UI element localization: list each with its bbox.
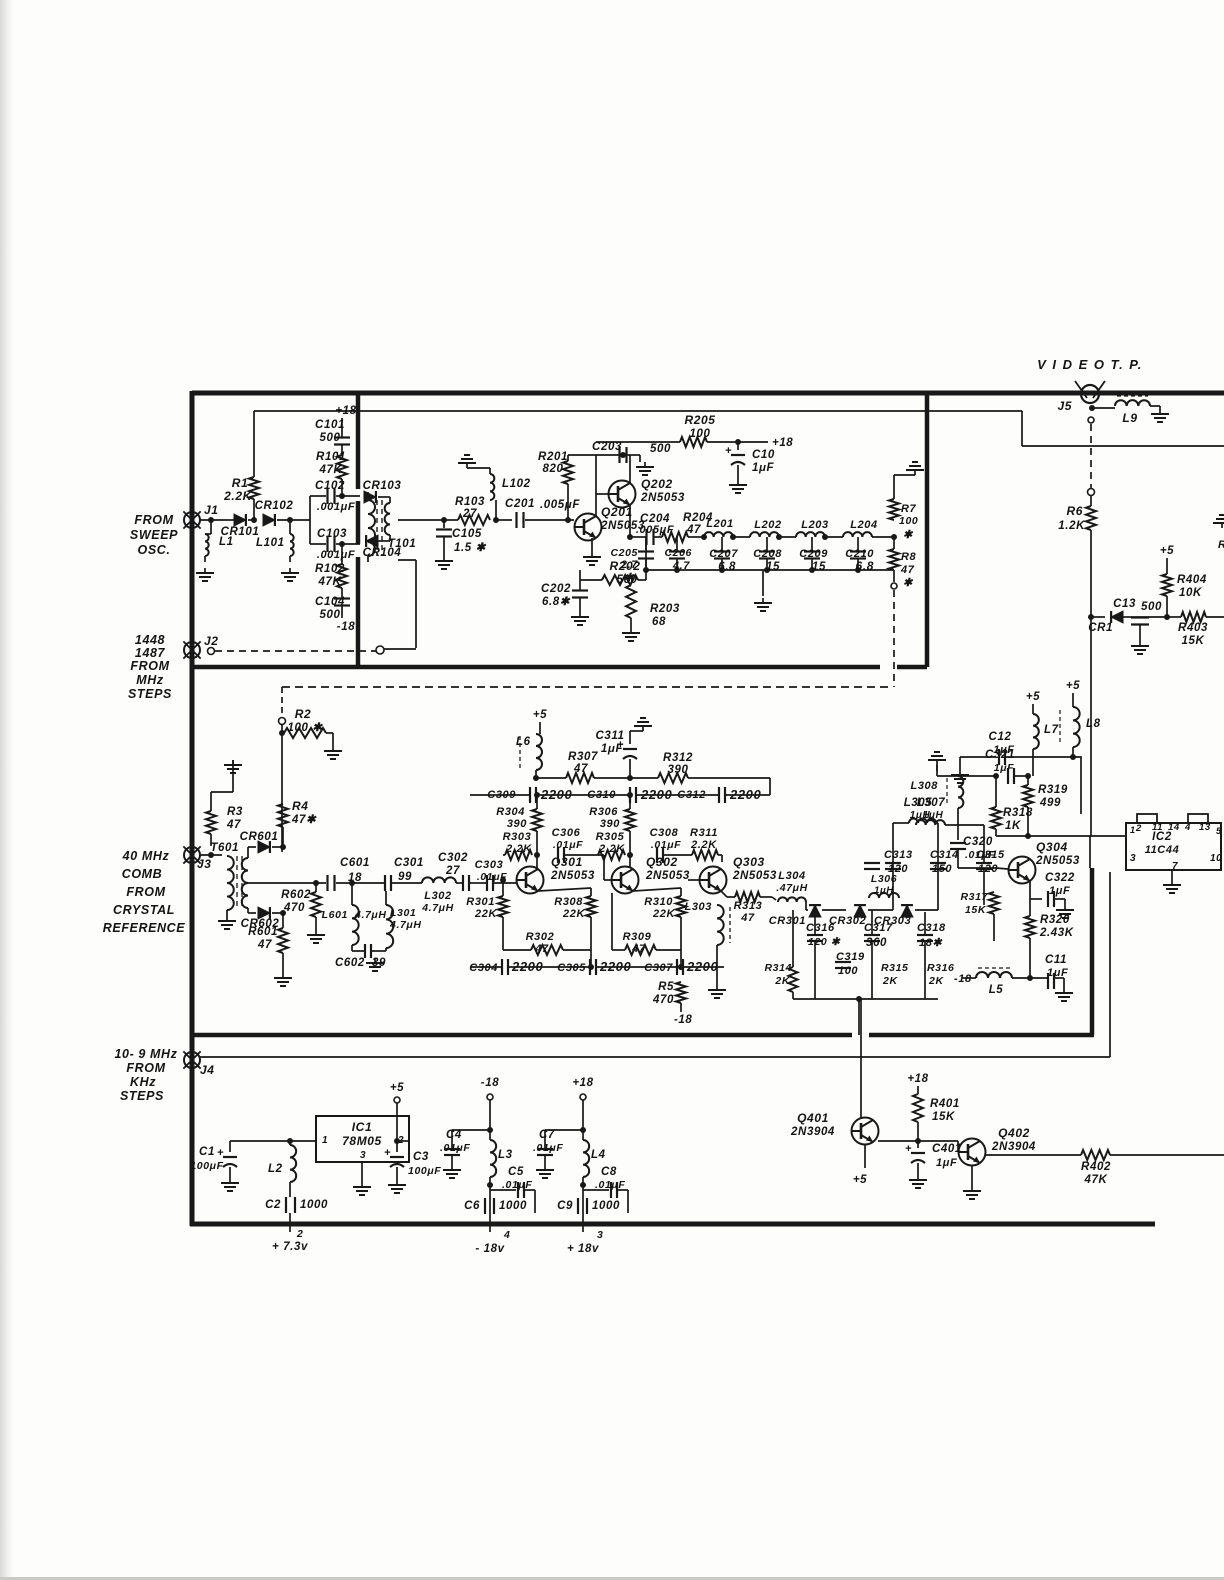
svg-text:47K: 47K <box>1084 1174 1108 1186</box>
svg-text:L101: L101 <box>256 537 285 549</box>
svg-text:C13: C13 <box>1113 598 1136 610</box>
svg-text:✱: ✱ <box>624 572 635 584</box>
svg-text:Q401: Q401 <box>797 1111 829 1125</box>
svg-text:1000: 1000 <box>300 1199 328 1211</box>
svg-text:Q202: Q202 <box>641 477 673 491</box>
svg-text:47: 47 <box>257 939 272 951</box>
svg-text:2.2K: 2.2K <box>690 839 717 851</box>
svg-text:R309: R309 <box>623 931 652 943</box>
svg-text:J3: J3 <box>197 857 212 871</box>
svg-text:C319: C319 <box>836 951 865 963</box>
svg-text:T601: T601 <box>210 842 239 854</box>
svg-text:+ 7.3v: + 7.3v <box>272 1241 308 1253</box>
svg-text:390: 390 <box>668 764 689 776</box>
svg-text:R403: R403 <box>1178 622 1208 634</box>
svg-text:2: 2 <box>1135 823 1142 834</box>
svg-text:C313: C313 <box>884 849 913 861</box>
svg-text:FROM: FROM <box>130 659 169 673</box>
svg-text:C301: C301 <box>394 857 424 869</box>
svg-text:L201: L201 <box>706 518 733 530</box>
svg-text:10: 10 <box>1210 853 1222 864</box>
svg-text:C206: C206 <box>664 547 692 559</box>
svg-text:4.7: 4.7 <box>672 560 690 572</box>
svg-text:R401: R401 <box>930 1098 960 1110</box>
svg-text:2.2K: 2.2K <box>505 843 532 855</box>
svg-text:15: 15 <box>812 561 826 573</box>
svg-text:10- 9 MHz: 10- 9 MHz <box>114 1047 177 1061</box>
svg-text:2K: 2K <box>928 975 944 987</box>
svg-text:15K: 15K <box>932 1111 955 1123</box>
svg-text:R4: R4 <box>292 799 309 813</box>
svg-text:CR103: CR103 <box>363 480 402 492</box>
svg-text:STEPS: STEPS <box>120 1089 164 1103</box>
svg-text:.005μF: .005μF <box>636 524 674 536</box>
svg-text:Q302: Q302 <box>646 855 678 869</box>
svg-text:1μF: 1μF <box>936 1157 957 1169</box>
svg-text:C201: C201 <box>505 498 535 510</box>
svg-text:Q304: Q304 <box>1036 840 1068 854</box>
svg-text:R8: R8 <box>901 551 917 563</box>
svg-text:C310: C310 <box>587 789 616 801</box>
svg-text:L2: L2 <box>268 1163 283 1175</box>
svg-text:L9: L9 <box>1122 411 1137 425</box>
svg-text:4: 4 <box>503 1229 510 1241</box>
svg-text:2N5053: 2N5053 <box>550 870 595 882</box>
svg-text:C318: C318 <box>917 922 946 934</box>
svg-text:5: 5 <box>1216 826 1222 836</box>
svg-text:C10: C10 <box>752 449 775 461</box>
svg-text:2.7: 2.7 <box>620 559 638 571</box>
svg-text:C105: C105 <box>452 528 482 540</box>
svg-text:100 ✱: 100 ✱ <box>287 722 323 734</box>
svg-text:R302: R302 <box>526 931 555 943</box>
svg-text:4.7μH: 4.7μH <box>389 919 422 931</box>
svg-text:L203: L203 <box>801 519 828 531</box>
svg-text:L301: L301 <box>390 907 416 919</box>
svg-text:R305: R305 <box>596 831 625 843</box>
svg-text:R5: R5 <box>658 981 674 993</box>
svg-text:100: 100 <box>899 515 918 527</box>
svg-text:J1: J1 <box>204 503 219 517</box>
svg-text:+18: +18 <box>772 437 793 449</box>
svg-text:1000: 1000 <box>499 1200 527 1212</box>
svg-text:100μF: 100μF <box>408 1165 441 1177</box>
svg-text:C303: C303 <box>475 859 504 871</box>
svg-text:6.8: 6.8 <box>856 559 874 573</box>
svg-text:COMB: COMB <box>122 867 163 881</box>
svg-text:REFERENCE: REFERENCE <box>103 921 186 935</box>
svg-text:47K: 47K <box>318 576 342 588</box>
svg-text:+5: +5 <box>1160 545 1174 557</box>
svg-text:R404: R404 <box>1177 574 1207 586</box>
svg-text:C4: C4 <box>446 1129 462 1141</box>
svg-text:R306: R306 <box>589 806 618 818</box>
svg-text:C305: C305 <box>557 962 586 974</box>
svg-text:✱: ✱ <box>903 577 914 589</box>
svg-text:+: + <box>725 445 732 457</box>
svg-text:R304: R304 <box>496 806 525 818</box>
svg-text:6.8✱: 6.8✱ <box>542 596 571 608</box>
svg-text:47: 47 <box>534 943 549 955</box>
svg-text:500: 500 <box>650 443 671 455</box>
svg-text:100μF: 100μF <box>190 1160 223 1172</box>
svg-text:R6: R6 <box>1066 504 1083 518</box>
svg-text:L303: L303 <box>685 901 712 913</box>
svg-text:15: 15 <box>766 561 780 573</box>
svg-text:+18: +18 <box>907 1073 928 1085</box>
svg-text:C6: C6 <box>464 1200 480 1212</box>
svg-text:18✱: 18✱ <box>919 937 943 949</box>
svg-text:2.43K: 2.43K <box>1039 927 1074 939</box>
svg-text:27: 27 <box>445 865 460 877</box>
svg-text:C314: C314 <box>930 849 959 861</box>
svg-text:.01μF: .01μF <box>533 1142 563 1154</box>
svg-text:R1: R1 <box>232 476 249 490</box>
svg-text:2N5053: 2N5053 <box>640 492 685 504</box>
svg-text:R102: R102 <box>315 563 345 575</box>
svg-text:L304: L304 <box>778 870 805 882</box>
svg-text:C317: C317 <box>864 922 893 934</box>
svg-text:78M05: 78M05 <box>342 1134 382 1148</box>
svg-text:L202: L202 <box>754 519 781 531</box>
svg-text:C8: C8 <box>601 1166 617 1178</box>
svg-text:L204: L204 <box>850 519 877 531</box>
svg-text:C308: C308 <box>650 827 679 839</box>
svg-text:C207: C207 <box>709 548 738 560</box>
svg-text:13: 13 <box>1199 822 1211 833</box>
svg-text:68: 68 <box>652 616 666 628</box>
svg-text:.47μH: .47μH <box>776 882 808 894</box>
svg-text:R2: R2 <box>295 707 312 721</box>
svg-text:6.8: 6.8 <box>718 561 736 573</box>
svg-text:1μF: 1μF <box>1049 885 1070 897</box>
svg-text:2N3904: 2N3904 <box>991 1141 1036 1153</box>
svg-text:120 ✱: 120 ✱ <box>808 936 841 948</box>
svg-text:22K: 22K <box>474 908 497 920</box>
svg-text:J4: J4 <box>200 1063 215 1077</box>
svg-text:2.2K: 2.2K <box>598 843 625 855</box>
svg-text:R317: R317 <box>960 891 988 903</box>
svg-text:15K: 15K <box>965 904 987 916</box>
svg-text:CR1: CR1 <box>1088 622 1113 634</box>
svg-text:C5: C5 <box>508 1166 524 1178</box>
svg-text:Q402: Q402 <box>998 1126 1030 1140</box>
svg-text:FROM: FROM <box>126 1061 165 1075</box>
svg-text:✱: ✱ <box>903 529 914 541</box>
svg-text:1: 1 <box>1130 825 1136 835</box>
svg-text:3: 3 <box>597 1229 603 1241</box>
svg-text:L102: L102 <box>502 478 531 490</box>
svg-text:.01μF: .01μF <box>502 1179 532 1191</box>
svg-text:CR301: CR301 <box>769 915 806 927</box>
svg-text:C2: C2 <box>265 1199 281 1211</box>
svg-text:R313: R313 <box>734 900 763 912</box>
svg-text:820: 820 <box>543 463 564 475</box>
svg-text:360: 360 <box>866 937 887 949</box>
svg-text:CRYSTAL: CRYSTAL <box>113 903 175 917</box>
svg-text:C101: C101 <box>315 419 345 431</box>
svg-text:+5: +5 <box>1066 680 1080 692</box>
svg-text:100: 100 <box>690 428 711 440</box>
svg-text:L8: L8 <box>1086 718 1101 730</box>
svg-text:-18: -18 <box>337 621 355 633</box>
svg-text:.01μF: .01μF <box>595 1179 625 1191</box>
svg-text:2N5053: 2N5053 <box>645 870 690 882</box>
svg-text:L3: L3 <box>498 1149 513 1161</box>
svg-text:+: + <box>617 739 624 751</box>
svg-text:4.7μH: 4.7μH <box>354 909 387 921</box>
svg-text:+: + <box>905 1143 912 1155</box>
svg-text:R311: R311 <box>690 827 718 839</box>
svg-text:470: 470 <box>652 994 674 1006</box>
svg-text:R310: R310 <box>644 896 673 908</box>
svg-text:V I D E O T. P.: V I D E O T. P. <box>1037 357 1143 372</box>
svg-text:7: 7 <box>1172 861 1178 872</box>
svg-text:C209: C209 <box>799 548 828 560</box>
svg-text:L5: L5 <box>989 984 1004 996</box>
svg-text:.001μF: .001μF <box>317 501 355 513</box>
svg-text:J5: J5 <box>1057 399 1072 413</box>
svg-text:R201: R201 <box>538 451 568 463</box>
svg-text:R307: R307 <box>568 751 598 763</box>
svg-text:L308: L308 <box>911 780 939 792</box>
svg-text:47✱: 47✱ <box>291 814 317 826</box>
svg-text:C1: C1 <box>199 1146 215 1158</box>
svg-text:47: 47 <box>573 763 588 775</box>
svg-text:.01μF: .01μF <box>553 839 583 851</box>
svg-text:C11: C11 <box>1045 954 1067 966</box>
svg-text:1μF: 1μF <box>752 462 775 474</box>
svg-text:3: 3 <box>360 1150 366 1161</box>
svg-text:-18: -18 <box>954 973 972 985</box>
svg-text:+: + <box>217 1147 224 1159</box>
svg-text:500: 500 <box>1141 601 1162 613</box>
svg-text:L307: L307 <box>917 797 946 809</box>
svg-text:-18: -18 <box>481 1077 499 1089</box>
svg-text:2N5053: 2N5053 <box>732 870 777 882</box>
svg-text:C307: C307 <box>644 962 673 974</box>
svg-text:.01μF: .01μF <box>440 1142 470 1154</box>
svg-text:R312: R312 <box>663 752 693 764</box>
svg-text:500: 500 <box>320 609 341 621</box>
svg-text:1000: 1000 <box>592 1200 620 1212</box>
svg-text:47: 47 <box>686 524 701 536</box>
svg-text:L601: L601 <box>322 909 348 921</box>
svg-text:C306: C306 <box>552 827 581 839</box>
svg-text:22K: 22K <box>562 908 585 920</box>
svg-text:FROM: FROM <box>134 513 173 527</box>
svg-text:.005μF: .005μF <box>540 499 580 511</box>
svg-text:C208: C208 <box>753 548 782 560</box>
svg-text:C102: C102 <box>315 480 345 492</box>
svg-text:47: 47 <box>226 819 241 831</box>
svg-text:C304: C304 <box>469 962 498 974</box>
svg-text:L7: L7 <box>1044 724 1059 736</box>
svg-text:390: 390 <box>600 818 620 830</box>
svg-text:C316: C316 <box>806 922 835 934</box>
svg-text:CR102: CR102 <box>255 500 294 512</box>
svg-text:C322: C322 <box>1045 872 1075 884</box>
svg-text:- 18v: - 18v <box>475 1243 504 1255</box>
svg-text:R601: R601 <box>248 926 278 938</box>
svg-text:1K: 1K <box>1005 820 1021 832</box>
svg-text:T101: T101 <box>388 538 417 550</box>
svg-text:R103: R103 <box>455 496 485 508</box>
svg-text:L306: L306 <box>871 873 897 885</box>
svg-text:+18: +18 <box>335 405 356 417</box>
svg-text:+: + <box>384 1147 391 1159</box>
svg-text:1.2K: 1.2K <box>1058 520 1085 532</box>
svg-text:+5: +5 <box>1026 691 1040 703</box>
svg-text:R602: R602 <box>281 889 311 901</box>
svg-text:2K: 2K <box>774 975 790 987</box>
svg-text:R320: R320 <box>1040 914 1070 926</box>
svg-text:15K: 15K <box>1182 635 1205 647</box>
svg-text:100: 100 <box>838 965 858 977</box>
svg-text:3: 3 <box>1130 853 1136 864</box>
svg-text:L6: L6 <box>516 736 531 748</box>
svg-text:R301: R301 <box>466 896 495 908</box>
svg-text:R316: R316 <box>927 962 955 974</box>
svg-text:99: 99 <box>398 871 412 883</box>
svg-text:+18: +18 <box>572 1077 593 1089</box>
svg-text:22K: 22K <box>652 908 675 920</box>
svg-text:1μH: 1μH <box>923 810 944 821</box>
svg-text:11: 11 <box>1152 822 1163 833</box>
svg-text:CR601: CR601 <box>240 831 279 843</box>
svg-text:1487: 1487 <box>135 646 166 660</box>
svg-text:C202: C202 <box>541 583 571 595</box>
svg-text:470: 470 <box>283 902 305 914</box>
svg-text:SWEEP: SWEEP <box>130 528 178 542</box>
svg-text:4: 4 <box>1184 822 1191 833</box>
svg-text:390: 390 <box>507 818 527 830</box>
svg-text:C205: C205 <box>610 547 638 559</box>
svg-text:R: R <box>1218 539 1224 551</box>
svg-text:+5: +5 <box>390 1082 404 1094</box>
svg-text:C103: C103 <box>317 528 347 540</box>
svg-text:+ 18v: + 18v <box>567 1243 599 1255</box>
svg-text:C12: C12 <box>989 731 1012 743</box>
svg-text:120: 120 <box>978 863 998 875</box>
svg-text:40 MHz: 40 MHz <box>122 849 170 863</box>
svg-text:C302: C302 <box>438 852 468 864</box>
svg-text:IC1: IC1 <box>352 1120 372 1134</box>
svg-text:-18: -18 <box>674 1014 692 1026</box>
svg-text:11C44: 11C44 <box>1145 844 1180 856</box>
svg-text:R303: R303 <box>503 831 532 843</box>
svg-text:KHz: KHz <box>130 1075 156 1089</box>
svg-text:C602: C602 <box>335 957 365 969</box>
svg-text:14: 14 <box>1168 822 1180 833</box>
svg-text:MHz: MHz <box>136 673 164 687</box>
svg-text:C309: C309 <box>487 789 516 801</box>
svg-text:L1: L1 <box>219 536 234 548</box>
svg-text:.01μF: .01μF <box>651 839 681 851</box>
svg-text:C312: C312 <box>677 789 706 801</box>
svg-text:R402: R402 <box>1081 1161 1111 1173</box>
svg-text:2N5053: 2N5053 <box>1035 855 1080 867</box>
svg-text:2K: 2K <box>882 975 898 987</box>
svg-text:STEPS: STEPS <box>128 687 172 701</box>
svg-text:R205: R205 <box>684 413 715 427</box>
svg-text:R203: R203 <box>650 603 680 615</box>
svg-text:C104: C104 <box>315 596 345 608</box>
svg-text:OSC.: OSC. <box>138 543 171 557</box>
svg-text:.001μF: .001μF <box>317 549 355 561</box>
svg-text:L4: L4 <box>591 1149 606 1161</box>
svg-text:1: 1 <box>322 1135 328 1146</box>
svg-text:2: 2 <box>296 1228 303 1240</box>
svg-text:R319: R319 <box>1038 784 1068 796</box>
svg-text:.01μF: .01μF <box>965 849 995 861</box>
svg-text:R308: R308 <box>554 896 583 908</box>
svg-text:+5: +5 <box>853 1174 867 1186</box>
svg-text:C3: C3 <box>413 1151 429 1163</box>
svg-text:47: 47 <box>740 912 755 924</box>
svg-text:1μH: 1μH <box>874 885 894 896</box>
svg-text:L302: L302 <box>424 890 451 902</box>
svg-text:4.7μH: 4.7μH <box>421 902 454 914</box>
svg-text:499: 499 <box>1039 797 1061 809</box>
svg-text:J2: J2 <box>204 634 219 648</box>
svg-text:+5: +5 <box>533 709 547 721</box>
svg-text:1448: 1448 <box>135 633 165 647</box>
svg-text:FROM: FROM <box>126 885 165 899</box>
svg-text:C320: C320 <box>963 836 993 848</box>
svg-text:C9: C9 <box>557 1200 573 1212</box>
svg-text:150: 150 <box>932 863 952 875</box>
svg-text:Q303: Q303 <box>733 855 765 869</box>
svg-text:C7: C7 <box>539 1129 555 1141</box>
svg-text:47: 47 <box>900 564 915 576</box>
svg-text:R314: R314 <box>764 962 792 974</box>
svg-text:R7: R7 <box>901 503 917 515</box>
svg-text:C601: C601 <box>340 857 370 869</box>
svg-text:1.5 ✱: 1.5 ✱ <box>454 542 487 554</box>
svg-text:10K: 10K <box>1179 587 1202 599</box>
svg-text:R315: R315 <box>881 962 909 974</box>
svg-text:Q301: Q301 <box>551 855 583 869</box>
svg-text:R3: R3 <box>227 806 243 818</box>
svg-text:2N3904: 2N3904 <box>790 1126 835 1138</box>
